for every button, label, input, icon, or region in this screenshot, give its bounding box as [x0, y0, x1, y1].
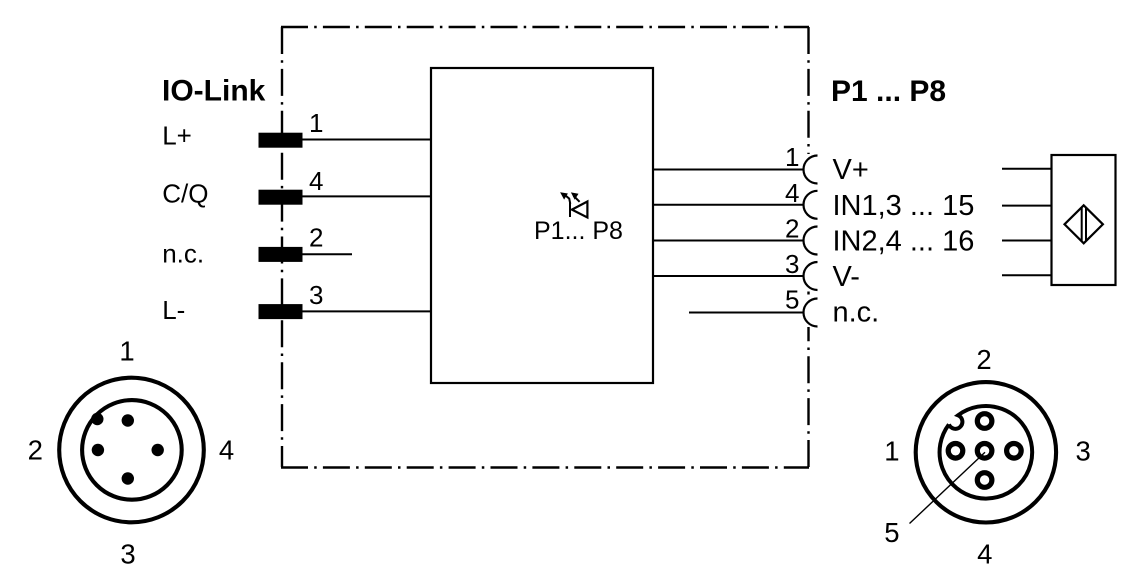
svg-text:V+: V+: [833, 154, 869, 186]
male connector key dot: [91, 413, 103, 425]
svg-text:4: 4: [309, 166, 323, 196]
wire V-: [653, 275, 804, 277]
svg-text:2: 2: [28, 435, 43, 466]
svg-text:2: 2: [976, 344, 991, 375]
socket arc pin 3: [804, 262, 818, 290]
wire C/Q: [302, 195, 431, 197]
socket arc pin 5: [804, 299, 818, 327]
sensor B1 diamond symbol: [1065, 205, 1103, 243]
svg-text:IN2,4 ... 16: IN2,4 ... 16: [833, 226, 975, 258]
enclosure dash-dot border right upper: [807, 27, 809, 154]
socket arc pin 1: [804, 156, 818, 184]
enclosure dash-dot border top: [281, 26, 809, 28]
wire IN2,4: [653, 240, 804, 242]
svg-text:L-: L-: [162, 295, 185, 325]
svg-text:1: 1: [309, 108, 323, 138]
svg-text:n.c.: n.c.: [162, 239, 204, 269]
svg-text:L+: L+: [162, 121, 192, 151]
svg-text:1: 1: [884, 436, 899, 467]
svg-text:P1 ... P8: P1 ... P8: [831, 75, 946, 108]
svg-text:IN1,3 ... 15: IN1,3 ... 15: [833, 190, 975, 222]
sensor B1 wire 1: [1002, 168, 1052, 170]
female connector inner circle with notch: [940, 406, 1033, 499]
sensor B1 diamond chord right: [1085, 208, 1087, 241]
enclosure dash-dot border right lower: [807, 327, 809, 467]
svg-text:4: 4: [977, 539, 992, 570]
male connector pin dot top: [122, 414, 134, 426]
male connector pin dot left: [92, 444, 104, 456]
terminal L+: [259, 133, 303, 148]
svg-text:C/Q: C/Q: [162, 179, 208, 209]
sensor B1 box: [1052, 155, 1116, 285]
female connector hole top: [977, 414, 992, 429]
enclosure dash-dot border right dot: [807, 292, 809, 295]
wire L+: [302, 139, 431, 141]
svg-text:2: 2: [309, 223, 323, 253]
svg-text:P1... P8: P1... P8: [534, 217, 623, 245]
male connector outer circle: [59, 378, 204, 523]
socket arc pin 4: [804, 191, 818, 219]
enclosure dash-dot border bottom: [281, 466, 809, 468]
svg-text:4: 4: [785, 178, 799, 208]
svg-text:2: 2: [785, 214, 799, 244]
male connector inner circle: [82, 400, 182, 500]
socket arc pin 2: [804, 227, 818, 255]
terminal C/Q: [259, 190, 303, 205]
wire L-: [302, 310, 431, 312]
female connector pointer line pin 5: [910, 452, 986, 523]
female connector hole bottom: [977, 473, 992, 488]
terminal n.c.: [259, 247, 303, 262]
male connector pin dot bottom: [122, 472, 134, 484]
female connector hole right: [1007, 444, 1022, 459]
wire IN1,3: [653, 204, 804, 206]
svg-text:3: 3: [785, 249, 799, 279]
LED D1 cathode bar: [569, 202, 571, 217]
female connector outer circle: [916, 382, 1056, 522]
terminal L-: [259, 304, 303, 319]
svg-text:4: 4: [219, 435, 234, 466]
wire V+: [653, 169, 804, 171]
svg-text:IO-Link: IO-Link: [162, 75, 266, 108]
device box U1: [431, 68, 653, 383]
sensor B1 wire 4: [1002, 274, 1052, 276]
svg-text:1: 1: [785, 142, 799, 172]
svg-text:3: 3: [120, 539, 135, 570]
female connector hole center: [977, 444, 992, 459]
svg-text:V-: V-: [833, 261, 860, 293]
wire n.c. right: [689, 312, 804, 314]
enclosure dash-dot border left: [281, 27, 283, 467]
LED D1 arrow 1: [565, 195, 570, 204]
sensor B1 diamond chord left: [1081, 208, 1083, 241]
female connector hole left: [948, 444, 963, 459]
LED D1 arrow 2: [574, 196, 580, 202]
svg-text:5: 5: [884, 517, 899, 548]
svg-text:1: 1: [119, 336, 134, 367]
LED D1 triangle: [572, 202, 588, 218]
sensor B1 wire 2: [1002, 205, 1052, 207]
male connector pin dot right: [152, 444, 164, 456]
svg-text:n.c.: n.c.: [833, 297, 880, 329]
svg-text:5: 5: [785, 285, 799, 315]
wire n.c. left stub: [302, 253, 352, 255]
svg-text:3: 3: [1076, 436, 1091, 467]
svg-text:3: 3: [309, 280, 323, 310]
sensor B1 wire 3: [1002, 240, 1052, 242]
